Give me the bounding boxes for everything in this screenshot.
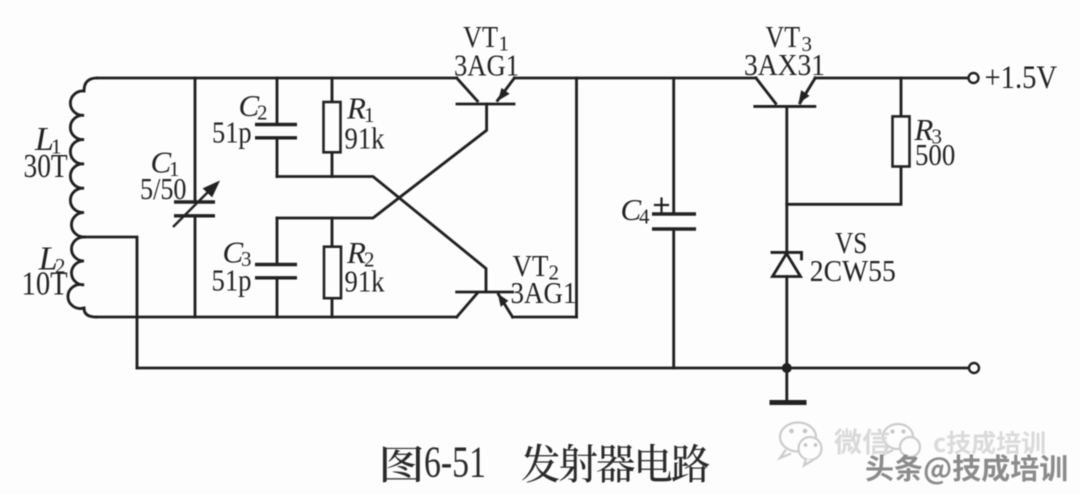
svg-text:+1.5V: +1.5V xyxy=(985,60,1058,96)
svg-text:91k: 91k xyxy=(345,121,385,156)
svg-text:51p: 51p xyxy=(212,263,252,298)
svg-text:51p: 51p xyxy=(212,115,252,150)
svg-text:5/50: 5/50 xyxy=(140,171,187,206)
svg-text:10T: 10T xyxy=(22,266,68,303)
svg-text:500: 500 xyxy=(915,137,955,172)
svg-text:3AX31: 3AX31 xyxy=(744,47,825,82)
svg-text:91k: 91k xyxy=(345,264,385,299)
svg-text:3AG1: 3AG1 xyxy=(454,48,519,83)
svg-text:4: 4 xyxy=(639,205,650,229)
svg-text:3AG1: 3AG1 xyxy=(511,275,577,310)
svg-text:6-51: 6-51 xyxy=(424,438,486,487)
svg-text:30T: 30T xyxy=(24,148,68,185)
svg-text:2CW55: 2CW55 xyxy=(810,253,896,288)
svg-text:2: 2 xyxy=(257,101,268,125)
